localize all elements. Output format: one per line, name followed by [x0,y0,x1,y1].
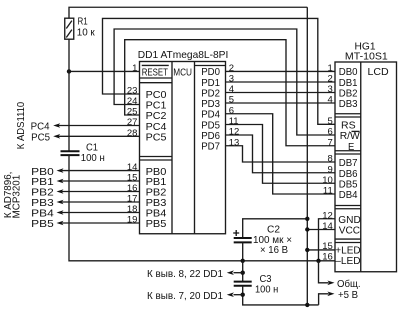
wire C3 bottom to +5V rail [243,286,319,305]
svg-text:4: 4 [328,95,333,106]
svg-text:DB2: DB2 [339,88,358,99]
svg-text:17: 17 [127,194,138,205]
svg-text:PD4: PD4 [201,110,220,121]
svg-text:3: 3 [229,74,234,85]
svg-text:100 н: 100 н [255,284,278,295]
svg-text:MCU: MCU [173,67,192,78]
wire PD7 to DB7 [226,146,336,162]
svg-text:12: 12 [229,127,240,138]
svg-text:VCC: VCC [339,226,361,237]
wire VCC pin14 [307,229,335,231]
wire +LED pin15 [307,249,335,251]
wire PD5 to DB5 [226,125,336,184]
node VCC tap К выв. 7, 20 DD1 [147,291,245,302]
svg-text:23: 23 [127,86,138,97]
svg-text:16: 16 [127,183,138,194]
node junction C2/C3/rail [241,259,245,263]
svg-text:PB2: PB2 [146,188,167,199]
svg-text:PB3: PB3 [31,198,54,209]
svg-text:PD6: PD6 [201,131,220,142]
svg-text:MT-10S1: MT-10S1 [345,51,388,62]
node PB5 arrow [31,219,139,230]
svg-text:8: 8 [328,154,333,165]
svg-text:13: 13 [229,137,240,148]
svg-text:19: 19 [127,215,138,226]
svg-text:DB0: DB0 [339,67,358,78]
svg-text:2: 2 [328,74,333,85]
svg-text:PB2: PB2 [31,188,54,199]
svg-text:PC5: PC5 [146,133,167,144]
svg-text:PB5: PB5 [146,219,167,230]
svg-text:2: 2 [229,63,234,74]
svg-text:E: E [348,142,354,153]
svg-text:9: 9 [328,164,333,175]
node PB2 arrow [31,188,139,199]
svg-text:PB4: PB4 [31,209,54,220]
svg-text:10 к: 10 к [77,28,95,39]
wire PC1 to R/W [114,29,335,135]
svg-text:DB5: DB5 [339,179,358,190]
svg-text:PD0: PD0 [201,67,220,78]
svg-text:Общ.: Общ. [337,278,361,290]
wire +5V vertical A [306,7,308,305]
node junction C2/+5V [305,217,309,221]
wire PD2 to DB2 [226,92,336,94]
node junction B on common rail [316,259,320,263]
svg-text:DD1 ATmega8L-8PI: DD1 ATmega8L-8PI [138,50,229,61]
svg-text:R1: R1 [78,17,88,28]
svg-text:12: 12 [322,210,333,221]
svg-text:6: 6 [328,127,333,138]
wire RESET pin1 [69,70,140,72]
svg-text:16: 16 [322,252,333,263]
wire PD6 to DB6 [226,135,336,173]
svg-text:PD2: PD2 [201,88,220,99]
svg-text:PC2: PC2 [146,111,167,122]
node +5 В arrow [319,290,358,305]
svg-text:PB0: PB0 [31,167,54,178]
svg-text:PC4: PC4 [31,122,50,133]
svg-text:+5 В: +5 В [338,290,358,301]
svg-text:14: 14 [322,221,333,232]
svg-text:10: 10 [322,175,333,186]
resistor R1 [65,17,95,40]
node junction +LED [305,248,309,252]
node Общ. arrow [319,261,361,290]
svg-text:PB4: PB4 [146,209,167,220]
svg-text:PB1: PB1 [31,177,54,188]
svg-text:DB4: DB4 [339,190,358,201]
node GND tap К выв. 8, 22 DD1 [147,269,245,280]
svg-text:PD5: PD5 [201,120,220,131]
svg-text:К ADS1110: К ADS1110 [16,102,27,150]
node junction VCC [305,227,309,231]
svg-text:PD1: PD1 [201,78,220,89]
svg-text:14: 14 [127,162,138,173]
svg-text:3: 3 [328,84,333,95]
node R1 bottom junction [67,69,71,73]
node PC4 arrow [31,122,140,133]
node junction +5V rail / vertical A [305,303,309,307]
svg-text:25: 25 [127,107,138,118]
svg-text:24: 24 [127,96,138,107]
svg-text:PC1: PC1 [146,101,167,112]
node PC5 arrow [31,133,139,144]
wire LCD GND pin12 down to common rail [319,219,336,261]
svg-text:7: 7 [328,137,333,148]
node PB3 arrow [31,198,139,209]
wire PD1 to DB1 [226,81,336,83]
svg-text:PB5: PB5 [31,219,54,230]
wire PD0 to DB0 [226,70,336,72]
svg-text:1: 1 [328,63,333,74]
svg-text:100 н: 100 н [81,153,105,164]
svg-text:1: 1 [132,63,137,74]
wire C2 top to +5V vertical [243,219,308,238]
svg-text:× 16 В: × 16 В [260,245,288,256]
svg-text:К выв. 8, 22 DD1: К выв. 8, 22 DD1 [147,269,223,280]
svg-text:DB6: DB6 [339,169,358,180]
svg-text:–LED: –LED [335,256,360,267]
svg-text:28: 28 [127,128,138,139]
svg-text:PB1: PB1 [146,177,167,188]
svg-text:DB1: DB1 [339,78,358,89]
op-amp U1 : microcontroller DD1 body [138,50,229,234]
svg-text:C1: C1 [86,143,98,154]
svg-text:МСР3201: МСР3201 [12,175,23,219]
svg-text:К выв. 7, 20 DD1: К выв. 7, 20 DD1 [147,291,223,302]
node PB0 arrow [31,167,139,178]
wire C1 bottom to common rail [69,155,335,261]
svg-text:PB3: PB3 [146,198,167,209]
svg-text:5: 5 [229,95,234,106]
svg-text:4: 4 [229,84,234,95]
wire C3 vertical top [242,261,244,282]
svg-text:DB3: DB3 [339,99,358,110]
svg-text:11: 11 [323,186,333,197]
wire C2 bottom to rail [242,242,244,260]
capacitor C3 [234,274,279,295]
svg-text:PD7: PD7 [201,142,220,153]
svg-text:27: 27 [127,117,138,128]
svg-text:6: 6 [229,105,234,116]
svg-text:LCD: LCD [368,67,389,78]
svg-text:RESET: RESET [142,67,169,78]
svg-text:PC0: PC0 [146,90,167,101]
svg-text:PB0: PB0 [146,167,167,178]
wire PD3 to DB3 [226,102,336,104]
svg-text:18: 18 [127,204,138,215]
svg-text:DB7: DB7 [339,158,358,169]
svg-text:GND: GND [338,215,361,226]
wire R1 top to +5V top rail [69,7,307,18]
wire PD4 to DB4 [226,114,336,194]
node PB4 arrow [31,209,139,220]
svg-text:PD3: PD3 [201,99,220,110]
LCD HG1 MT-10S1 body [335,42,397,272]
svg-text:PC4: PC4 [146,122,167,133]
svg-text:C2: C2 [267,225,280,236]
wire PC0 to RS [103,18,336,124]
capacitor C1 [61,143,105,165]
wire R1 bottom to C1 [68,39,70,151]
wire PC2 to E [125,40,335,146]
svg-text:R/W: R/W [340,131,360,142]
svg-text:RS: RS [341,120,356,131]
node PB1 arrow [31,177,139,188]
svg-text:15: 15 [127,173,138,184]
svg-text:+LED: +LED [335,246,360,257]
svg-text:PC5: PC5 [31,133,50,144]
capacitor C2 [233,225,292,257]
svg-text:5: 5 [328,116,333,127]
svg-text:11: 11 [229,116,239,127]
